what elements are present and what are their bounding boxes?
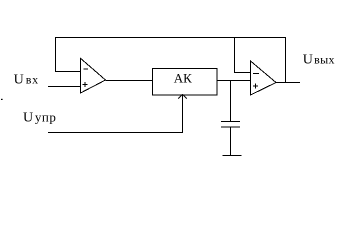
op-amp U1 minus sign bbox=[83, 68, 88, 70]
wire: AK output to U2 non-inverting input bbox=[217, 80, 251, 82]
capacitor C1 bottom plate bbox=[221, 126, 240, 128]
wire: U1 output to AK block bbox=[106, 80, 153, 82]
svg-text:АК: АК bbox=[174, 71, 192, 86]
svg-text:Uупр: Uупр bbox=[23, 109, 56, 125]
wire: U vx input to U1 non-inverting input bbox=[48, 86, 81, 88]
svg-text:Uвых: Uвых bbox=[303, 53, 335, 68]
wire: feedback net (Uout to inverting input of U1): left drop, top run, right drop bbox=[56, 38, 286, 83]
op-amp U1 bbox=[81, 58, 106, 93]
op-amp U2 bbox=[251, 61, 277, 95]
stray mark bbox=[1, 99, 3, 100]
op-amp U2 minus sign bbox=[253, 73, 259, 75]
wire: U upr control line to AK block bbox=[48, 96, 183, 133]
capacitor C1 top plate bbox=[221, 121, 240, 123]
svg-text:Uвх: Uвх bbox=[14, 73, 39, 88]
wire: capacitor C1 to ground bbox=[230, 128, 232, 157]
op-amp U2 plus sign bbox=[253, 84, 258, 89]
wire: U1 inverting input stub bbox=[55, 71, 81, 73]
wire: U2 output bbox=[276, 82, 300, 84]
wire: feedback tap down to U2 inverting input bbox=[235, 38, 251, 73]
op-amp U1 plus sign bbox=[82, 82, 87, 87]
ground bar bbox=[223, 155, 242, 157]
arrowhead into AK bottom bbox=[178, 94, 187, 98]
wire: hold node down to capacitor C1 bbox=[230, 81, 232, 122]
block AK box bbox=[153, 69, 218, 96]
